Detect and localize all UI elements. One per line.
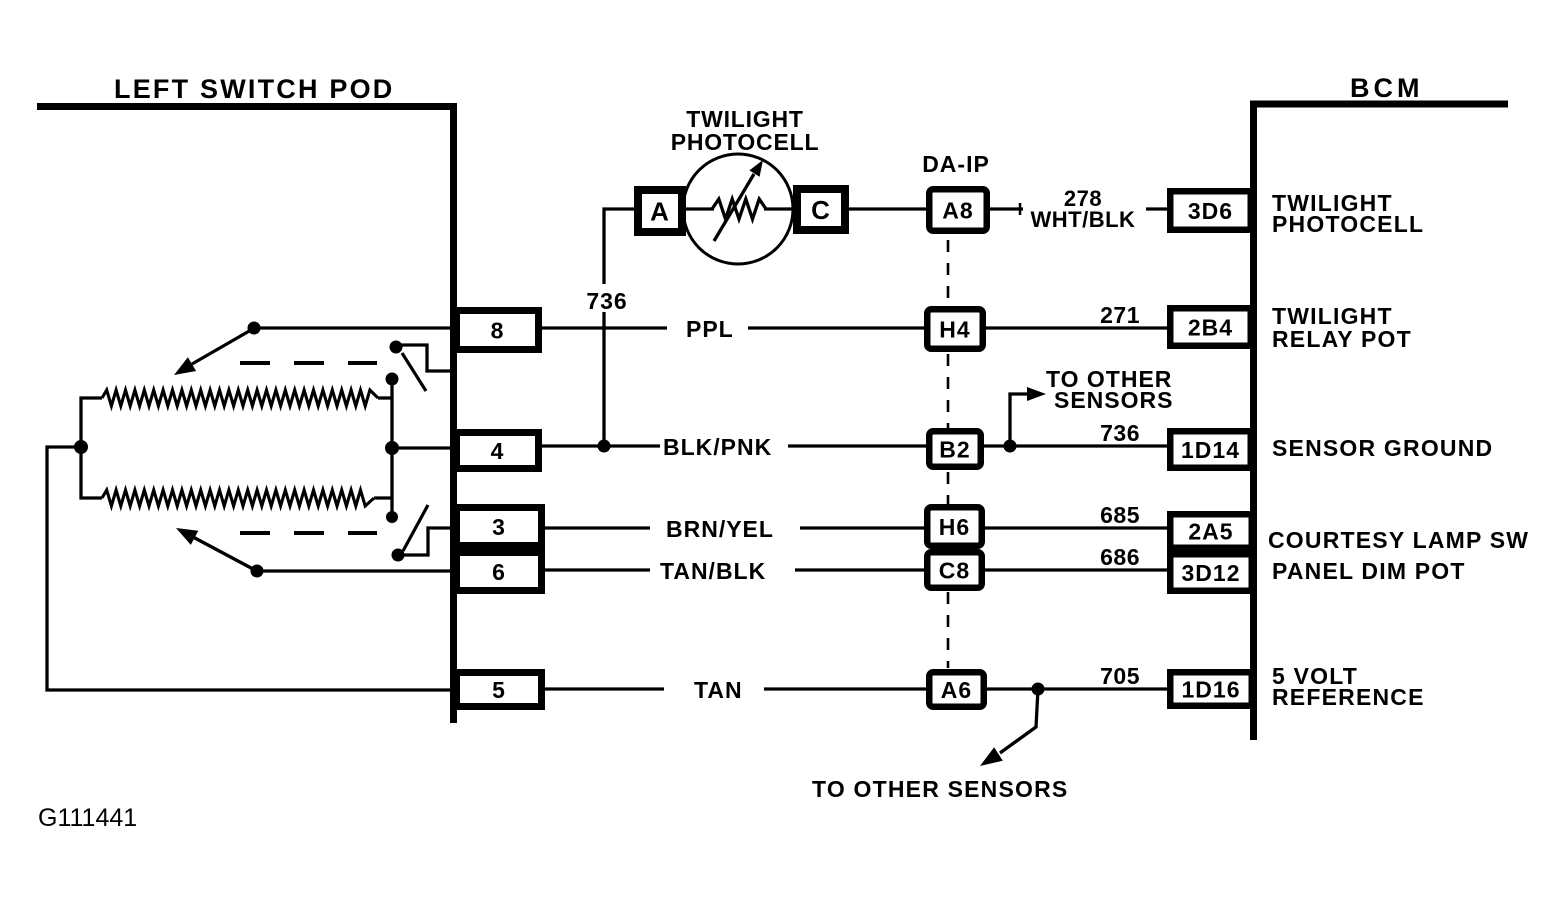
arrow to other sensors (ground) (1010, 387, 1046, 446)
svg-text:PHOTOCELL: PHOTOCELL (671, 129, 820, 155)
svg-text:5: 5 (492, 677, 506, 703)
switch S2 pivot (392, 549, 405, 562)
svg-text:RELAY POT: RELAY POT (1272, 326, 1412, 352)
wire H6 to 2A5 (985, 526, 1168, 529)
svg-text:BRN/YEL: BRN/YEL (666, 516, 774, 542)
wiper travel dashed line (lower) (240, 531, 377, 535)
svg-text:REFERENCE: REFERENCE (1272, 684, 1425, 710)
connector 1D14 (1170, 431, 1251, 468)
connector H4 (927, 309, 983, 349)
DA-IP dashed bulkhead line (947, 240, 950, 668)
wire 5 to TAN label (545, 687, 664, 690)
label DA-IP (922, 151, 990, 177)
wiper wire to connector 6 (257, 569, 450, 572)
label 5 VOLT REFERENCE (1272, 663, 1425, 710)
label TO OTHER SENSORS (upper) (1046, 366, 1173, 413)
wire PPL label to H4 (748, 326, 924, 329)
svg-text:C8: C8 (939, 557, 970, 583)
junction left ends (74, 440, 88, 454)
wire 736 drop lower segment (602, 310, 605, 446)
label BRN/YEL (666, 516, 774, 542)
left switch pod bus (37, 107, 454, 724)
svg-text:DA-IP: DA-IP (922, 151, 990, 177)
connector B2 (929, 431, 981, 467)
node center tap (385, 441, 399, 455)
arrow to other sensors (5V) (980, 689, 1038, 766)
wiper travel dashed line (upper) (240, 361, 377, 365)
svg-text:2A5: 2A5 (1188, 518, 1233, 544)
svg-text:B2: B2 (939, 436, 970, 462)
wiper arrow (upper) (174, 330, 251, 375)
svg-text:COURTESY LAMP SW: COURTESY LAMP SW (1268, 527, 1529, 553)
svg-text:736: 736 (586, 288, 627, 314)
photocell variable-arrow (714, 160, 763, 241)
wire R2 left lead (81, 447, 102, 498)
wire H4 to 2B4 (986, 326, 1168, 329)
label wire 271 (1100, 302, 1140, 328)
wire TAN label to A6 (764, 687, 926, 690)
svg-text:3: 3 (492, 514, 506, 540)
svg-text:4: 4 (491, 438, 505, 464)
wire R1 right lead (378, 396, 392, 399)
svg-text:C: C (811, 195, 831, 225)
svg-text:3D12: 3D12 (1182, 560, 1241, 586)
svg-text:3D6: 3D6 (1188, 198, 1233, 224)
svg-text:686: 686 (1100, 544, 1140, 570)
wire A6 to 1D16 (987, 687, 1168, 690)
wire B2 to 1D14 (984, 444, 1168, 447)
label PPL (686, 316, 734, 342)
svg-text:A: A (650, 196, 670, 226)
label TO OTHER SENSORS (lower) (812, 776, 1068, 802)
label wire 685 (1100, 502, 1140, 528)
wire R1 left lead (81, 398, 102, 447)
wire BLK/PNK label to B2 (788, 444, 926, 447)
switch S1 blade (402, 353, 426, 391)
label TWILIGHT PHOTOCELL (BCM pin) (1272, 190, 1424, 237)
junction to other sensors (ground) (1004, 440, 1017, 453)
svg-text:736: 736 (1100, 420, 1140, 446)
connector 2B4 (1170, 308, 1251, 346)
label TAN (694, 677, 743, 703)
wire 4 to BLK/PNK label (542, 444, 660, 447)
svg-text:G111441: G111441 (38, 804, 137, 832)
wire TAN/BLK label to C8 (795, 568, 924, 571)
photocell circle (683, 154, 793, 264)
wire center tap to connector 4 (392, 446, 450, 449)
svg-text:6: 6 (492, 559, 506, 585)
label TAN/BLK (660, 558, 766, 584)
label BCM (1350, 73, 1424, 103)
BCM bus (1254, 104, 1509, 740)
svg-text:LEFT SWITCH POD: LEFT SWITCH POD (114, 74, 394, 104)
wire 8 to PPL label (542, 326, 667, 329)
label wire 705 (1100, 663, 1140, 689)
wire tick into 3D6 (1146, 207, 1168, 210)
connector 8 (457, 311, 539, 350)
svg-text:BCM: BCM (1350, 73, 1424, 103)
switch S1 pivot (390, 341, 403, 354)
svg-text:1D16: 1D16 (1182, 676, 1241, 702)
wire 6 to TAN/BLK label (545, 568, 650, 571)
svg-text:BLK/PNK: BLK/PNK (663, 434, 772, 460)
svg-text:PANEL DIM POT: PANEL DIM POT (1272, 558, 1466, 584)
svg-text:705: 705 (1100, 663, 1140, 689)
label TWILIGHT PHOTOCELL (component title) (671, 106, 820, 155)
switch S2 blade (403, 505, 428, 551)
label wire 278 WHT/BLK (1031, 186, 1136, 232)
junction to other sensors (5V) (1032, 683, 1045, 696)
svg-text:685: 685 (1100, 502, 1140, 528)
svg-text:SENSORS: SENSORS (1054, 387, 1173, 413)
label wire 736 (photocell) (582, 284, 632, 314)
terminal A (638, 190, 682, 232)
wire S2 contact to bus (398, 528, 450, 555)
svg-text:H4: H4 (939, 316, 970, 342)
svg-text:TAN: TAN (694, 677, 743, 703)
photocell variable resistor element (712, 199, 766, 219)
resistor R1 (rheostat winding) (102, 390, 378, 406)
terminal C (797, 189, 845, 230)
svg-text:271: 271 (1100, 302, 1140, 328)
connector 6 (457, 553, 542, 591)
connector 3D12 (1170, 554, 1252, 591)
svg-text:PHOTOCELL: PHOTOCELL (1272, 211, 1424, 237)
wiper junction dot (lower) (251, 565, 264, 578)
connector A8 (929, 189, 987, 231)
connector A6 (929, 672, 984, 707)
svg-text:PPL: PPL (686, 316, 734, 342)
wire A8 to 278 label (990, 203, 1023, 215)
connector 3 (457, 508, 542, 546)
svg-text:WHT/BLK: WHT/BLK (1031, 207, 1136, 232)
svg-text:TO OTHER SENSORS: TO OTHER SENSORS (812, 776, 1068, 802)
connector 1D16 (1170, 672, 1252, 706)
wiper arrow (lower) (176, 528, 253, 569)
wire box A to 736 drop (604, 209, 635, 284)
resistor R2 (rheostat winding) (102, 490, 374, 506)
connector 5 (457, 673, 542, 707)
label PANEL DIM POT (1272, 558, 1466, 584)
label BLK/PNK (663, 434, 772, 460)
node R1 top (386, 373, 399, 386)
connector 3D6 (1170, 191, 1251, 230)
connector H6 (927, 507, 982, 546)
connector 4 (457, 433, 539, 469)
svg-text:H6: H6 (939, 514, 970, 540)
svg-text:8: 8 (491, 317, 505, 343)
wire R2 right lead (374, 496, 392, 499)
label TWILIGHT RELAY POT (1272, 303, 1412, 352)
label wire 736 (BCM) (1100, 420, 1140, 446)
junction 736/BLK-PNK (598, 440, 611, 453)
wire S1 contact to bus (398, 345, 450, 371)
svg-text:SENSOR GROUND: SENSOR GROUND (1272, 435, 1493, 461)
label LEFT SWITCH POD (114, 74, 394, 104)
label SENSOR GROUND (1272, 435, 1493, 461)
wire C8 to 3D12 (985, 568, 1168, 571)
node R2 bottom (386, 511, 398, 523)
wire right-side common (390, 379, 393, 517)
label COURTESY LAMP SW (1268, 527, 1529, 553)
wire BRN/YEL label to H6 (800, 526, 924, 529)
wire 3 to BRN/YEL label (545, 526, 650, 529)
svg-text:2B4: 2B4 (1188, 314, 1233, 340)
connector C8 (927, 552, 982, 588)
wiper junction dot (upper) (248, 322, 261, 335)
photocell internal wire (685, 207, 793, 210)
wire C to A8 (849, 207, 926, 210)
svg-text:1D14: 1D14 (1181, 437, 1240, 463)
svg-text:TAN/BLK: TAN/BLK (660, 558, 766, 584)
connector 2A5 (1170, 514, 1252, 548)
figure number G111441 (38, 804, 137, 832)
wiper wire to connector 8 (254, 326, 450, 329)
wire to connector 5 (47, 447, 450, 690)
label wire 686 (1100, 544, 1140, 570)
svg-text:A6: A6 (941, 677, 972, 703)
svg-text:A8: A8 (942, 197, 973, 223)
